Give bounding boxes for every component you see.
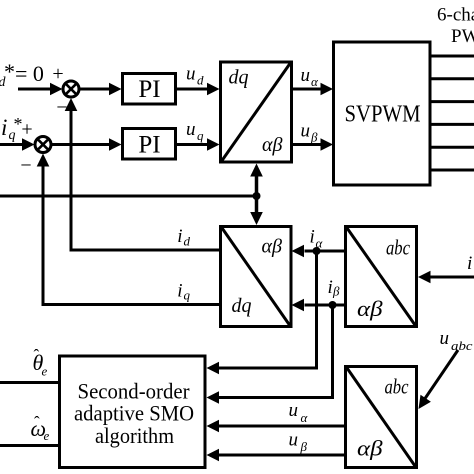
junction dot i-alpha	[313, 247, 321, 255]
block second-order adaptive SMO algorithm	[60, 356, 206, 468]
label u-beta (SMO input)	[289, 430, 308, 455]
label iq feedback	[177, 281, 190, 303]
wire ud: PI1 output to dq/alpha-beta transform	[176, 83, 220, 95]
wire: error signal to PI controller 2	[51, 138, 122, 150]
pwm output wire 5	[430, 146, 474, 149]
wire i-alpha into Park transform	[292, 245, 346, 257]
svg-text:ˆ: ˆ	[34, 346, 40, 365]
pwm output wire 1	[430, 55, 474, 58]
wire theta-e-hat output	[0, 381, 60, 384]
label i-beta	[328, 277, 341, 299]
label u-alpha	[301, 65, 320, 89]
svg-text:i: i	[328, 277, 333, 298]
svg-text:i: i	[1, 115, 7, 140]
svg-text:adaptive SMO: adaptive SMO	[74, 401, 194, 426]
svg-text:u: u	[301, 65, 311, 86]
summing junction 1	[63, 81, 79, 97]
wire i-beta to SMO	[207, 305, 333, 404]
wire: theta vertical double arrow	[250, 164, 263, 226]
pwm output wire 4	[430, 123, 474, 126]
block abc to alpha-beta Clarke transform (current)	[346, 227, 417, 327]
wire uq: PI2 output to dq/alpha-beta transform	[176, 138, 220, 150]
svg-text:i: i	[177, 226, 182, 247]
svg-text:+: +	[52, 63, 63, 85]
svg-text:u: u	[186, 119, 196, 140]
wire: iq reference into summing junction 2	[0, 138, 35, 150]
block dq to alpha-beta inverse Park transform	[221, 62, 292, 162]
label u-alpha (SMO input)	[289, 400, 309, 425]
label theta-e-hat	[33, 346, 48, 379]
svg-text:algorithm: algorithm	[95, 423, 174, 448]
wire u-beta to SMO	[207, 449, 346, 461]
junction dot theta	[253, 192, 261, 200]
block PI controller 1	[123, 74, 176, 105]
label u-abc	[440, 328, 474, 353]
wire i-beta into Park transform	[292, 299, 346, 311]
svg-text:abc: abc	[451, 339, 473, 353]
wire omega-e-hat output	[0, 444, 60, 447]
svg-text:β: β	[332, 284, 340, 299]
svg-text:β: β	[300, 439, 308, 454]
label uq	[186, 119, 204, 143]
svg-text:α: α	[311, 74, 319, 89]
wire u-abc diagonal input	[419, 350, 459, 409]
svg-text:SVPWM: SVPWM	[345, 102, 421, 128]
wire i-alpha to SMO	[207, 251, 317, 374]
svg-text:α: α	[316, 236, 324, 251]
junction dot i-beta	[329, 301, 337, 309]
svg-text:αβ: αβ	[357, 436, 383, 461]
svg-text:−: −	[20, 155, 31, 177]
svg-text:α: α	[301, 410, 309, 425]
svg-text:i: i	[177, 281, 182, 302]
svg-text:q: q	[184, 288, 191, 303]
label iq* reference	[1, 114, 23, 143]
wire iq feedback to summing junction 2	[37, 154, 220, 305]
wire u-alpha: transform to SVPWM	[292, 83, 334, 95]
block PI controller 2	[123, 129, 176, 160]
svg-text:*: *	[4, 59, 15, 84]
svg-text:αβ: αβ	[262, 236, 282, 258]
svg-text:−: −	[56, 97, 67, 119]
svg-text:u: u	[289, 400, 299, 421]
svg-text:ˆ: ˆ	[34, 413, 40, 432]
label ud	[186, 64, 204, 88]
svg-text:αβ: αβ	[357, 296, 383, 321]
svg-text:e: e	[42, 364, 48, 379]
block SVPWM	[334, 42, 431, 185]
label i-alpha	[310, 227, 324, 251]
svg-text:i: i	[310, 227, 315, 248]
pwm output wire 6	[430, 169, 474, 172]
svg-text:+: +	[21, 119, 32, 141]
wire: id reference into summing junction 1	[18, 83, 63, 95]
wire: error signal to PI controller 1	[79, 83, 122, 95]
svg-text:dq: dq	[232, 295, 252, 317]
svg-text:u: u	[440, 328, 450, 349]
svg-text:u: u	[301, 121, 311, 142]
svg-text:PWM: PWM	[451, 26, 474, 47]
wire u-beta: transform to SVPWM	[292, 138, 334, 150]
svg-text:i: i	[467, 253, 472, 274]
svg-text:d: d	[184, 234, 191, 249]
pwm output wire 2	[430, 77, 474, 80]
svg-text:PI: PI	[138, 76, 160, 103]
svg-text:= 0: = 0	[15, 61, 44, 86]
svg-text:q: q	[197, 128, 204, 143]
svg-text:αβ: αβ	[262, 134, 282, 156]
label omega-e-hat	[31, 413, 50, 443]
svg-text:β: β	[310, 130, 318, 145]
wire iabc input	[418, 271, 474, 283]
svg-text:PI: PI	[138, 132, 160, 159]
svg-text:6-channel: 6-channel	[437, 5, 474, 26]
wire u-alpha to SMO	[207, 420, 346, 432]
svg-text:dq: dq	[229, 67, 249, 89]
pwm output wire 3	[430, 100, 474, 103]
svg-text:d: d	[197, 73, 204, 88]
label id feedback	[177, 226, 190, 249]
wire theta-e into transforms	[0, 195, 257, 198]
svg-text:e: e	[44, 428, 50, 443]
block alpha-beta to dq Park transform	[221, 227, 292, 327]
svg-text:abc: abc	[385, 375, 410, 399]
summing junction 2	[35, 137, 51, 153]
block abc to alpha-beta Clarke transform (voltage)	[346, 367, 417, 468]
svg-text:abc: abc	[386, 236, 411, 260]
wire id feedback to summing junction 1	[65, 98, 220, 250]
svg-text:u: u	[289, 430, 299, 451]
label u-beta	[301, 121, 319, 145]
label id* = 0 reference	[0, 59, 44, 90]
svg-text:u: u	[186, 64, 196, 85]
